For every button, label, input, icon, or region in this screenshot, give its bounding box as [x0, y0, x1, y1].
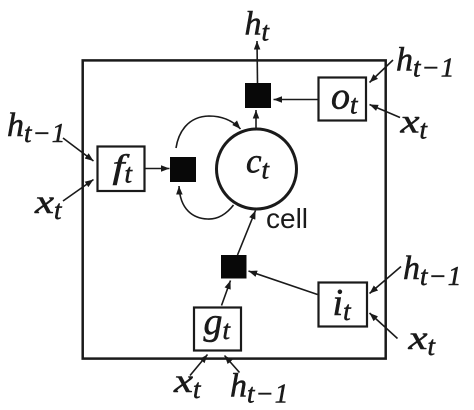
svg-text:cell: cell: [266, 203, 308, 234]
